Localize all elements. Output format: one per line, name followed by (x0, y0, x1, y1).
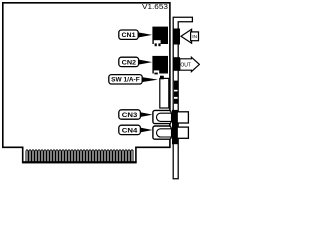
label CN2 (119, 57, 152, 66)
svg-text:IN: IN (192, 34, 197, 40)
DIP switch SW1 index square (160, 76, 164, 80)
RCA jack CN3 body (153, 110, 171, 123)
connector CN1 notch (154, 40, 161, 44)
IN arrow (181, 29, 192, 43)
svg-text:CN3: CN3 (122, 112, 138, 119)
RCA jack CN3 barrel (157, 113, 172, 121)
edge connector baseline (22, 161, 137, 163)
jack mounting strip (172, 110, 178, 144)
connector CN2 notch (154, 70, 159, 73)
DIP switch bracket slots (174, 81, 178, 90)
label CN1 (119, 30, 152, 39)
card outline (3, 3, 170, 163)
connector CN1 bracket port (173, 29, 180, 45)
RCA jack CN4 barrel (157, 129, 172, 137)
edge connector fingers (26, 150, 133, 162)
OUT arrow (180, 57, 200, 71)
label CN4 (119, 125, 153, 134)
label CN3 (119, 110, 153, 119)
connector CN1 body (152, 27, 168, 44)
RCA jack CN4 stub (177, 127, 188, 138)
RCA jack CN4 body (153, 126, 171, 139)
svg-text:CN2: CN2 (122, 59, 137, 66)
label SW 1/A-F (109, 75, 158, 84)
svg-text:SW 1/A-F: SW 1/A-F (111, 77, 140, 84)
connector CN2 body (152, 56, 168, 74)
svg-text:OUT: OUT (180, 63, 191, 69)
RCA jack CN3 stub (177, 112, 188, 123)
DIP switch SW1 body (160, 78, 169, 108)
svg-text:CN1: CN1 (122, 32, 137, 39)
connector CN1 legs (155, 43, 157, 46)
svg-text:V1.653: V1.653 (142, 4, 168, 11)
bracket (tab + rail, one outline) (173, 17, 192, 179)
connector CN2 bracket port (173, 57, 180, 71)
svg-text:CN4: CN4 (122, 127, 138, 134)
